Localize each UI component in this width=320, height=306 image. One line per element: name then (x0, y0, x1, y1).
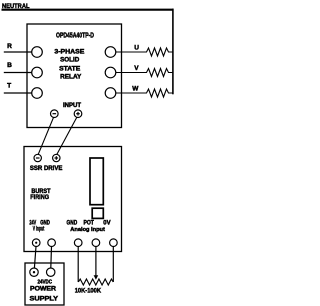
svg-text:V: V (134, 65, 139, 72)
wire phase R (4, 51, 32, 53)
svg-text:INPUT: INPUT (63, 102, 81, 109)
svg-text:10K-100K: 10K-100K (75, 288, 102, 295)
terminal POT wiper (92, 239, 100, 247)
terminal input plus U1 (74, 110, 82, 118)
svg-text:FIRING: FIRING (30, 194, 49, 201)
wire 24V to supply (34, 247, 36, 269)
wire 0V to pot right (112, 247, 114, 283)
wire neutral bus horizontal (2, 9, 174, 11)
svg-text:STATE: STATE (59, 66, 80, 73)
terminal SSR drive minus (34, 154, 41, 161)
wire POT to wiper (95, 247, 97, 277)
svg-text:SSR DRIVE: SSR DRIVE (30, 165, 63, 172)
terminal V output (105, 67, 116, 78)
svg-text:POWER: POWER (30, 286, 57, 293)
wire V and resistor load V (116, 69, 173, 77)
terminal W output (105, 88, 116, 99)
wire GND to pot left (77, 247, 79, 283)
svg-text:T: T (7, 83, 11, 90)
wire phase B (4, 72, 32, 74)
terminal GND analog (74, 239, 82, 247)
svg-text:SUPPLY: SUPPLY (30, 296, 60, 303)
component heatsink rectangle (90, 158, 103, 205)
svg-text:3-PHASE: 3-PHASE (54, 49, 84, 56)
terminal GND supply (48, 239, 56, 247)
wire GND to supply (50, 247, 53, 269)
terminal 24V (32, 239, 40, 247)
power supply PS1 box (25, 263, 64, 305)
svg-text:OPD45A40TP-D: OPD45A40TP-D (56, 33, 94, 40)
wire plus drive (57, 117, 77, 154)
svg-text:GND: GND (67, 221, 78, 227)
terminal T input (32, 88, 43, 99)
svg-text:B: B (7, 62, 12, 69)
wire neutral bus vertical (172, 9, 174, 95)
wire phase T (4, 92, 32, 94)
svg-text:U: U (134, 44, 139, 51)
terminal B input (32, 67, 43, 78)
svg-text:W: W (132, 85, 139, 92)
wiper arrow (94, 275, 99, 280)
svg-text:SOLID: SOLID (60, 57, 80, 64)
potentiometer RV1 (78, 279, 113, 285)
burst firing controller box (24, 147, 122, 252)
svg-text:R: R (7, 43, 12, 50)
terminal 0V (110, 239, 118, 247)
terminal supply GND (47, 268, 55, 276)
svg-text:RELAY: RELAY (60, 73, 82, 80)
terminal R input (32, 47, 43, 58)
svg-text:Analog Input: Analog Input (70, 227, 105, 233)
svg-text:POT: POT (84, 221, 95, 227)
terminal input minus U1 (51, 110, 59, 118)
svg-text:0V: 0V (103, 221, 110, 227)
wire U and resistor load U (116, 48, 173, 56)
terminal U output (105, 47, 116, 58)
wire W and resistor load W (116, 89, 173, 97)
3-phase SSR module U1 box (27, 24, 122, 128)
wire minus drive (38, 117, 53, 154)
terminal SSR drive plus (53, 154, 60, 161)
svg-text:V Input: V Input (33, 225, 45, 232)
component trimmer square (92, 208, 103, 218)
terminal supply 24V (30, 268, 38, 276)
